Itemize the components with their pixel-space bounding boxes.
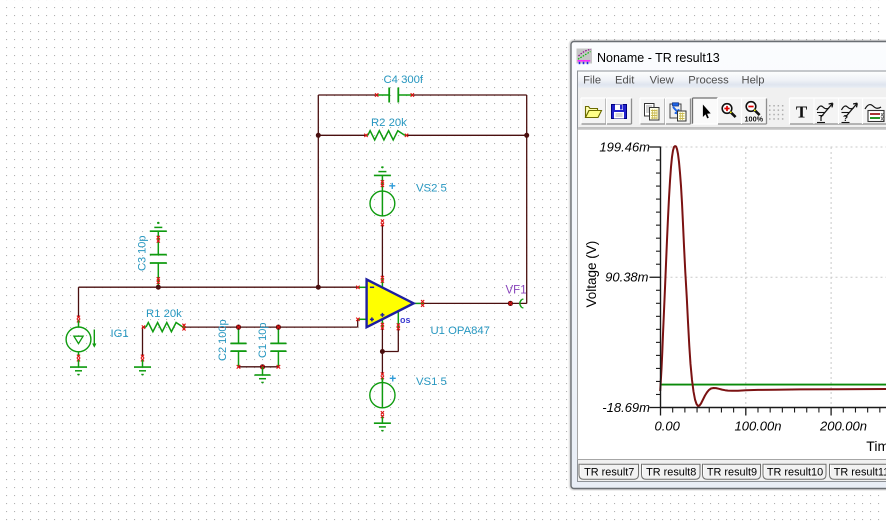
svg-text:T: T [796,103,808,122]
svg-text:90.38m: 90.38m [605,270,649,285]
svg-text:R2 20k: R2 20k [371,117,407,129]
svg-text:C1 10p: C1 10p [257,323,269,358]
svg-text:200.00n: 200.00n [819,419,867,434]
svg-text:TR result7: TR result7 [584,466,634,478]
svg-text:T: T [818,114,823,123]
svg-text:File: File [583,74,601,86]
svg-text:+: + [389,372,396,386]
svg-text:199.46m: 199.46m [599,140,650,155]
svg-text:VS1 5: VS1 5 [416,376,447,388]
svg-text:C4 300f: C4 300f [384,74,424,86]
svg-text:U1 OPA847: U1 OPA847 [431,325,490,337]
svg-text:os: os [400,315,411,325]
svg-text:Edit: Edit [615,74,635,86]
svg-text:View: View [650,74,675,86]
svg-text:IG1: IG1 [111,328,129,340]
svg-text:+: + [389,179,396,193]
svg-text:100%: 100% [745,115,764,124]
svg-text:-18.69m: -18.69m [602,400,650,415]
svg-text:Time (s): Time (s) [866,438,886,454]
svg-text:R1 20k: R1 20k [146,308,182,320]
svg-text:C2 100p: C2 100p [217,319,229,361]
svg-text:Process: Process [688,74,729,86]
svg-text:TR result9: TR result9 [707,466,757,478]
svg-text:TR result11: TR result11 [834,466,886,478]
svg-text:Voltage (V): Voltage (V) [584,241,599,308]
svg-text:VS2 5: VS2 5 [416,183,447,195]
svg-text:TR result10: TR result10 [767,466,823,478]
svg-text:C3 10p: C3 10p [137,236,149,271]
svg-text:?: ? [843,114,848,123]
svg-text:Noname - TR result13: Noname - TR result13 [597,51,720,65]
svg-text:0.00: 0.00 [655,419,681,434]
svg-text:TR result8: TR result8 [646,466,696,478]
svg-text:VF1: VF1 [506,285,527,297]
svg-text:100.00n: 100.00n [735,419,782,434]
svg-text:Help: Help [741,74,764,86]
